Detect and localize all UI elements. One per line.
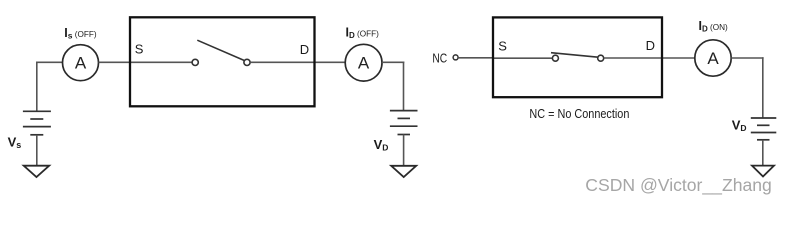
svg-text:NC: NC: [432, 50, 447, 65]
svg-text:S: S: [135, 42, 144, 57]
svg-text:A: A: [75, 54, 87, 73]
svg-text:NC = No Connection: NC = No Connection: [529, 107, 629, 121]
svg-text:D: D: [300, 42, 309, 57]
svg-text:CSDN @Victor__Zhang: CSDN @Victor__Zhang: [585, 175, 772, 195]
svg-text:D: D: [646, 38, 655, 53]
svg-text:A: A: [358, 54, 370, 73]
svg-text:S: S: [498, 38, 507, 53]
svg-text:A: A: [707, 49, 719, 68]
